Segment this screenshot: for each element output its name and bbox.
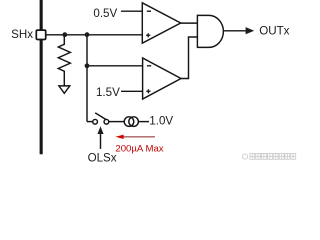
svg-text:OUTx: OUTx xyxy=(259,25,289,38)
svg-text:OLSx: OLSx xyxy=(88,151,117,163)
svg-text:200µA Max: 200µA Max xyxy=(115,143,163,154)
svg-text:1.5V: 1.5V xyxy=(96,86,120,99)
svg-text:0.5V: 0.5V xyxy=(93,7,117,20)
svg-text:SHx: SHx xyxy=(11,28,33,41)
svg-text:1.0V: 1.0V xyxy=(149,115,173,128)
